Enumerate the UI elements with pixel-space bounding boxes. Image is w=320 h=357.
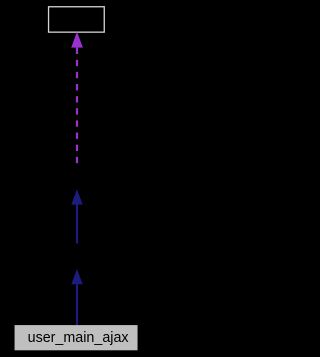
svg-text:user_main_ajax: user_main_ajax — [28, 330, 129, 346]
wire: dashed purple shaft — [76, 48, 78, 164]
edge: navy arrowhead 2 — [71, 269, 82, 284]
node: user_main_ajax box — [15, 325, 138, 350]
edge: dashed purple arrowhead — [71, 32, 83, 48]
wire: navy shaft 2 — [76, 284, 78, 325]
node: truncated top box — [49, 7, 105, 32]
edge: navy arrowhead 1 — [71, 189, 82, 204]
wire: navy shaft 1 — [76, 205, 78, 244]
